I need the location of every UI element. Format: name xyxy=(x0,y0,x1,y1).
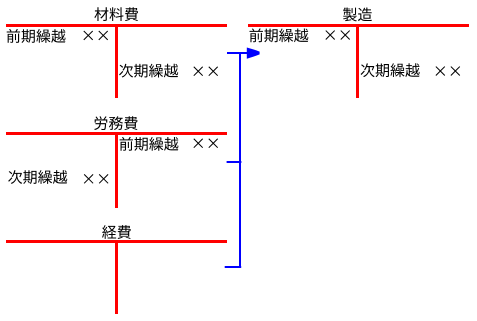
T-account 製造: debit amount ×× xyxy=(325,30,350,40)
T-account 労務費: vertical divider line xyxy=(115,132,118,208)
T-account 製造: debit label 前期繰越 xyxy=(250,28,309,42)
T-account 経費: title label xyxy=(102,225,131,239)
T-account 労務費: debit amount ×× xyxy=(84,174,109,184)
blue connector: middle tick toward 労務費 xyxy=(227,161,242,163)
T-account 労務費: credit label 前期繰越 xyxy=(120,137,179,151)
T-account 製造: top horizontal line xyxy=(248,24,469,27)
T-account 製造: vertical divider line xyxy=(356,24,359,98)
T-account 材料費: vertical divider line xyxy=(115,24,118,98)
T-account 材料費: credit label 次期繰越 xyxy=(119,64,178,78)
blue connector: vertical spine xyxy=(239,52,241,268)
T-account 経費: vertical divider line xyxy=(115,240,118,314)
T-account 材料費: debit amount ×× xyxy=(83,31,108,41)
T-account 労務費: top horizontal line xyxy=(6,132,227,135)
T-account 経費: top horizontal line xyxy=(6,240,227,243)
T-account 材料費: debit label 前期繰越 xyxy=(7,29,66,43)
T-account 材料費: top horizontal line xyxy=(6,24,227,27)
T-account 材料費: title label xyxy=(94,7,138,21)
T-account 製造: credit label 次期繰越 xyxy=(361,63,420,77)
blue connector: bottom tick toward 経費 xyxy=(225,266,242,268)
T-account 製造: title label xyxy=(343,8,372,22)
T-account 製造: credit amount ×× xyxy=(436,66,461,76)
T-account 材料費: credit amount ×× xyxy=(193,66,218,76)
T-account 労務費: credit amount ×× xyxy=(193,138,218,148)
blue connector: top horizontal segment toward 製造 xyxy=(227,52,248,54)
blue connector: arrowhead pointing right at 製造 前期繰越 xyxy=(247,48,260,59)
T-account 労務費: debit label 次期繰越 xyxy=(8,170,67,184)
T-account 労務費: title label xyxy=(94,116,137,130)
